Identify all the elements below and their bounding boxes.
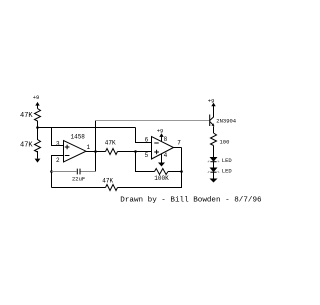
ground (left divider arrow) — [35, 151, 41, 163]
svg-text:47K: 47K — [20, 112, 33, 120]
op-amp2 minus symbol — [154, 142, 158, 144]
wire: node to op-amp1 pin 3 — [52, 128, 64, 146]
wire: 47K to op-amp2 pin 5 — [118, 151, 152, 153]
svg-text:47K: 47K — [105, 140, 116, 147]
op-amp U1a 1458 triangle — [64, 141, 87, 163]
svg-text:5: 5 — [145, 152, 149, 159]
svg-text:8: 8 — [164, 136, 168, 143]
svg-text:47K: 47K — [102, 178, 113, 185]
wire: bottom rail right segment — [118, 148, 182, 188]
wire: pin5 junction down to 100K — [136, 152, 155, 172]
ground (LED chain arrow) — [210, 172, 218, 182]
node: pin5 feedback junction dot — [134, 150, 137, 153]
transistor Q1 2N3904 — [210, 115, 215, 134]
node: divider junction dot — [36, 126, 39, 129]
wire: op-amp1 output — [86, 151, 106, 153]
svg-text:2N3904: 2N3904 — [216, 118, 237, 125]
op-amp1 plus symbol — [65, 145, 70, 150]
op-amp2 plus symbol — [154, 150, 159, 155]
svg-text:4: 4 — [164, 152, 168, 159]
wire: drop to op-amp2 pin 6 — [136, 128, 152, 143]
resistor 100 (emitter) — [211, 133, 217, 146]
op-amp1 minus symbol — [65, 155, 70, 157]
op-amp U1b triangle — [152, 137, 174, 160]
wire: op-amp1 pin 2 — [52, 156, 64, 188]
wire: divider node to pin6 drop — [38, 127, 136, 129]
node: output junction dot — [94, 150, 97, 153]
svg-text:47K: 47K — [20, 142, 33, 150]
LED D2 — [208, 168, 219, 173]
svg-text:100K: 100K — [154, 175, 169, 182]
resistor 47K (lower divider) — [35, 128, 41, 153]
wire: output up to base rail — [95, 121, 97, 152]
svg-text:+9: +9 — [157, 128, 164, 135]
svg-text:1: 1 — [87, 144, 91, 151]
svg-text:3: 3 — [56, 141, 60, 148]
power +9 symbol (transistor collector) — [210, 103, 216, 121]
svg-text:6: 6 — [145, 136, 149, 143]
power +9 symbol (op-amp2 pin 8) — [159, 133, 163, 141]
wire: op-amp2 output — [174, 147, 182, 149]
wire: op-amp1 feedback down leg — [95, 152, 97, 172]
svg-text:7: 7 — [177, 140, 181, 147]
resistor 47K (upper divider) — [35, 109, 41, 128]
power +9 symbol (left supply arrow) — [35, 102, 39, 109]
svg-text:LED: LED — [222, 157, 233, 164]
resistor 47K (bottom integrator input) — [106, 185, 118, 191]
svg-text:1458: 1458 — [71, 134, 86, 141]
ground (op-amp2 pin 4 arrow) — [158, 154, 165, 167]
svg-text:2: 2 — [56, 157, 60, 164]
wire: cap right lead (gray) — [81, 171, 96, 173]
wire: LED1 to LED2 — [213, 162, 215, 168]
svg-text:LED: LED — [222, 168, 233, 175]
capacitor 22uF plates — [77, 169, 80, 175]
svg-text:100: 100 — [220, 138, 230, 145]
resistor 47K (series to pin5) — [106, 149, 118, 155]
node: output feedback junction dot — [180, 170, 183, 173]
svg-text:Drawn by - Bill Bowden - 8/7/9: Drawn by - Bill Bowden - 8/7/96 — [120, 196, 262, 204]
wire: base rail to transistor (gray) — [96, 120, 210, 122]
svg-text:22uF: 22uF — [72, 176, 85, 183]
wire: 100K to output leg — [168, 171, 182, 173]
wire: bottom rail left segment — [52, 187, 106, 189]
LED D1 — [208, 158, 219, 163]
wire: cap left lead (gray) — [52, 171, 77, 173]
node: pin2 cap junction dot — [50, 170, 53, 173]
wire: 100 to LED1 — [213, 146, 215, 158]
svg-text:+9: +9 — [33, 94, 40, 101]
resistor 100K (positive feedback) — [155, 169, 169, 175]
svg-text:+9: +9 — [208, 97, 215, 104]
